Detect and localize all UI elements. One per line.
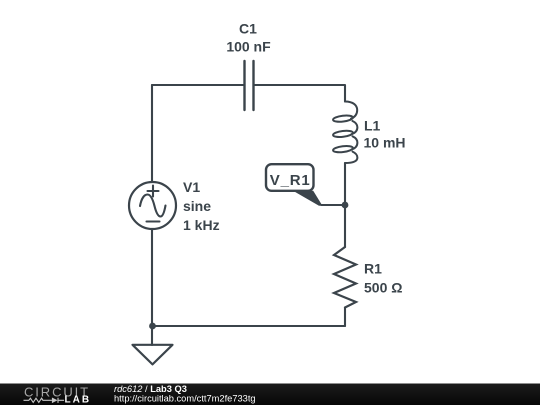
svg-text:rdc612 / Lab3 Q3: rdc612 / Lab3 Q3 — [114, 384, 187, 394]
svg-text:V1: V1 — [183, 179, 200, 195]
inductor L1 coil — [333, 102, 358, 164]
wire top-left horizontal to capacitor — [152, 84, 245, 86]
svg-text:1 kHz: 1 kHz — [183, 217, 220, 233]
V1 plus sign — [148, 186, 159, 197]
wire left vertical lower (V1 to bottom node) — [151, 229, 153, 326]
logo resistor squiggle and diode — [24, 398, 65, 403]
svg-text:100 nF: 100 nF — [226, 39, 271, 55]
wire V_R1 flag to node — [321, 204, 345, 206]
capacitor C1 plates — [245, 61, 254, 110]
wire inductor to node — [344, 163, 346, 205]
svg-text:http://circuitlab.com/ctt7m2fe: http://circuitlab.com/ctt7m2fe733tg — [114, 394, 256, 404]
svg-text:LAB: LAB — [65, 395, 92, 405]
svg-text:10 mH: 10 mH — [364, 134, 406, 150]
node A (L1/R1 junction) — [342, 202, 349, 209]
resistor R1 zigzag — [334, 247, 356, 308]
svg-text:R1: R1 — [364, 261, 382, 277]
wire resistor to bottom — [344, 308, 346, 327]
wire capacitor to top-right corner — [254, 85, 346, 102]
V1 sine wave — [140, 195, 166, 217]
ground symbol — [133, 345, 173, 365]
voltage source V1 circle — [129, 182, 176, 229]
wire left vertical upper (to V1) — [151, 85, 153, 182]
svg-text:500 Ω: 500 Ω — [364, 280, 402, 296]
svg-text:C1: C1 — [239, 20, 257, 36]
svg-text:V_R1: V_R1 — [270, 172, 311, 189]
svg-text:sine: sine — [183, 198, 211, 214]
node B (bottom-left junction) — [149, 323, 156, 330]
wire ground stem — [151, 326, 153, 345]
V1 minus sign — [147, 220, 160, 222]
V_R1 flag pointer wedge — [293, 191, 322, 206]
wire bottom horizontal — [152, 325, 345, 327]
wire node to resistor — [344, 205, 346, 247]
V_R1 flag box — [266, 164, 314, 191]
svg-text:L1: L1 — [364, 117, 381, 133]
